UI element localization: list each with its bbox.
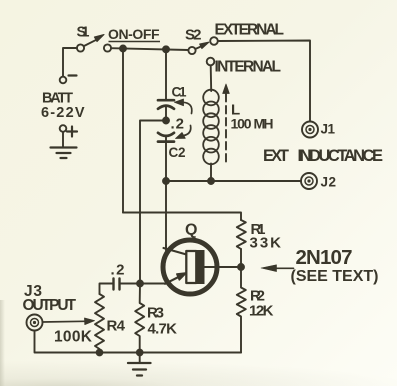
jack J1 (302, 122, 318, 138)
svg-text:C2: C2 (169, 145, 186, 160)
core dashed line of L (225, 94, 227, 165)
wire top rail S1 to S2 (111, 48, 188, 50)
svg-text:.2: .2 (171, 116, 185, 133)
capacitor C1 (158, 100, 174, 109)
wire C2 to tank bottom (165, 137, 167, 181)
svg-text:(SEE TEXT): (SEE TEXT) (291, 268, 379, 285)
junction node battery rail / R1 branch (120, 46, 126, 52)
resistor R1 (237, 220, 246, 249)
svg-text:4.7K: 4.7K (148, 321, 178, 338)
svg-text:MH: MH (254, 116, 274, 132)
jack J2 (301, 173, 317, 189)
svg-text:6-22V: 6-22V (41, 105, 85, 121)
wire negative rail to R1 (123, 213, 241, 221)
wire collector vertical into Q (165, 245, 167, 251)
wire battery plus to ground (62, 132, 64, 147)
svg-text:.2: .2 (111, 262, 125, 279)
svg-text:J2: J2 (321, 175, 337, 190)
wire S1 to battery minus (63, 48, 77, 77)
junction node coil bottom (208, 178, 214, 184)
svg-text:100K: 100K (54, 329, 93, 346)
junction node R4 bottom (97, 350, 103, 356)
wire cap to emitter node (120, 283, 141, 285)
jack J3 (27, 315, 43, 331)
value arrow to C2 (184, 126, 191, 136)
wire tank bottom to J2 (166, 180, 301, 182)
ground (battery) (51, 148, 77, 159)
svg-text:C1: C1 (172, 85, 187, 100)
wire rail junction down to C1 (165, 49, 167, 99)
resistor R3 (135, 284, 144, 353)
svg-text:S2: S2 (185, 27, 202, 44)
svg-text:EXTERNAL: EXTERNAL (215, 22, 285, 39)
wire R1 to base node (240, 249, 242, 267)
wire C1 to tap node (165, 106, 167, 121)
wire coil bottom to tank rail (210, 164, 212, 181)
junction node emitter (137, 281, 143, 287)
wire J3 to ground rail (35, 331, 242, 353)
svg-text:INTERNAL: INTERNAL (215, 59, 282, 76)
svg-text:12K: 12K (249, 303, 274, 320)
wire cap to R4 top (100, 284, 114, 295)
wire tank bottom to collector (165, 181, 167, 248)
svg-text:S1: S1 (77, 25, 90, 41)
value arrow to C1 (183, 102, 192, 113)
svg-text:OUTPUT: OUTPUT (23, 297, 77, 314)
svg-text:33K: 33K (250, 235, 282, 252)
minus sign (69, 74, 77, 76)
wire emitter to node (140, 283, 167, 285)
resistor R4 (potentiometer) (95, 294, 104, 353)
pointer arrow 2N107 (272, 267, 294, 269)
switch S2 (188, 37, 217, 65)
inductor L coil loops (203, 90, 219, 165)
core arrow of L (223, 84, 230, 94)
wire S2 external contact to J1 (218, 41, 310, 121)
svg-text:R3: R3 (147, 305, 164, 322)
svg-text:100: 100 (231, 116, 252, 132)
capacitor C (.2 output coupling) (114, 279, 120, 290)
svg-text:Q: Q (185, 222, 197, 239)
junction node tank bottom (163, 178, 169, 184)
junction node R3 bottom (137, 350, 143, 356)
plus sign (67, 127, 77, 137)
transistor Q (163, 240, 241, 294)
svg-text:ON-OFF: ON-OFF (108, 26, 160, 42)
junction node base (238, 264, 244, 270)
svg-text:R4: R4 (107, 318, 126, 335)
capacitor C2 (158, 133, 174, 142)
wire ground stub (139, 353, 141, 363)
battery BATT terminal minus (60, 77, 67, 84)
svg-text:J1: J1 (321, 122, 336, 137)
wire S2 internal contact to coil L (210, 65, 213, 91)
svg-text:EXT: EXT (263, 147, 289, 165)
resistor R2 (237, 267, 246, 353)
wire vertical rail to R1 row (122, 49, 124, 213)
wiper arrow R4 (43, 320, 85, 323)
ground (main) (128, 363, 151, 376)
junction node rail / C1 branch (163, 46, 169, 52)
switch S1 (77, 35, 111, 52)
battery BATT terminal plus (60, 125, 67, 132)
junction node C1/C2 tap (163, 118, 169, 124)
svg-text:INDUCTANCE: INDUCTANCE (298, 147, 384, 165)
svg-text:2N107: 2N107 (296, 246, 353, 269)
wire tap to emitter column (140, 121, 166, 284)
